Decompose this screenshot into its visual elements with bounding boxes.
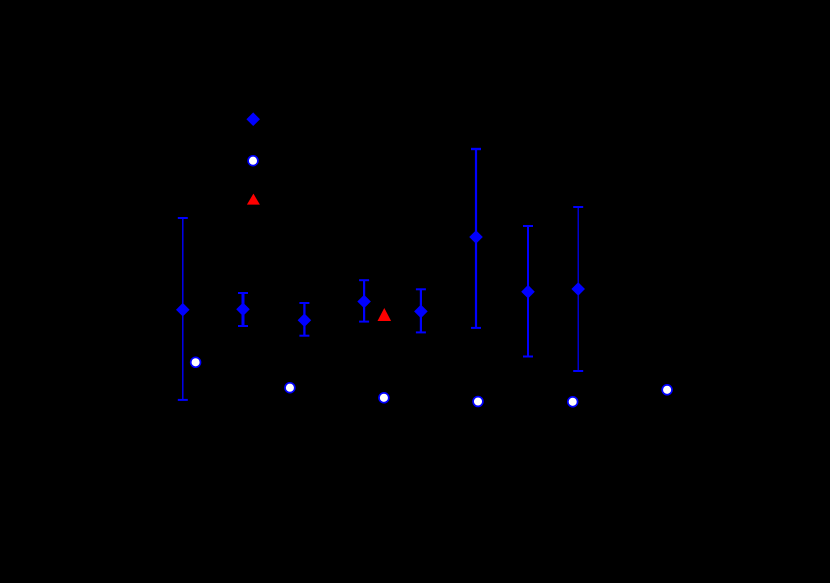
error bar 4 xyxy=(359,280,369,321)
error bar 3 xyxy=(299,303,309,336)
data circle 6 xyxy=(662,385,672,395)
data diamond 1 xyxy=(176,303,190,317)
data diamond 5 xyxy=(414,305,428,319)
data diamond 7 xyxy=(521,285,535,299)
data circle 1 xyxy=(191,357,201,367)
data triangle 1 xyxy=(378,308,392,321)
error bar 1 xyxy=(178,218,188,400)
data circle 2 xyxy=(285,383,295,393)
data diamond 6 xyxy=(469,230,483,244)
error bar 7 xyxy=(523,226,533,357)
data diamond 4 xyxy=(357,295,371,309)
data diamond 3 xyxy=(298,313,312,327)
data diamond 2 xyxy=(236,303,250,317)
legend marker: red triangle xyxy=(247,194,260,205)
data circle 4 xyxy=(473,397,483,407)
error bar 2 xyxy=(238,293,248,326)
data diamond 8 xyxy=(571,282,585,296)
error bar 6 xyxy=(471,149,481,328)
error bar 8 xyxy=(573,207,583,371)
legend marker: white circle xyxy=(248,156,258,166)
legend marker: blue diamond xyxy=(246,112,260,126)
data circle 3 xyxy=(379,393,389,403)
error bar 5 xyxy=(416,289,426,332)
data circle 5 xyxy=(568,397,578,407)
